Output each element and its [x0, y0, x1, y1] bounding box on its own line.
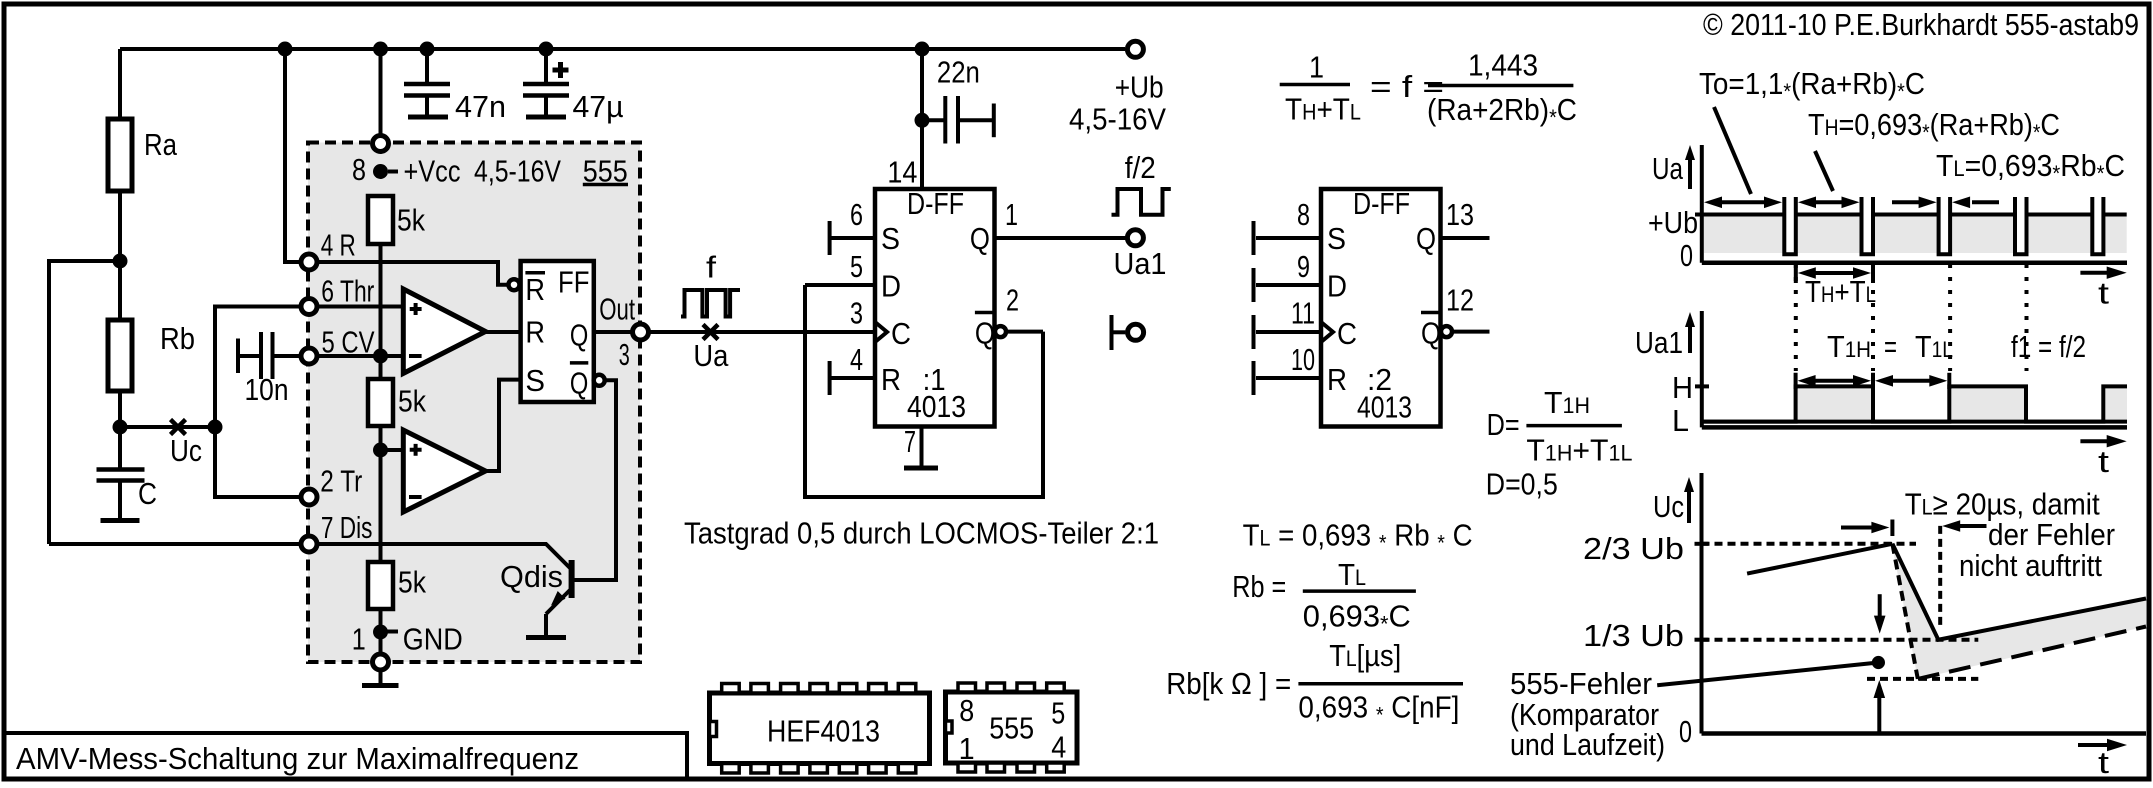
- svg-text:=: =: [1884, 329, 1897, 364]
- pin D wire :1: [805, 249, 875, 285]
- waveform Ua1 trace: [1702, 386, 2127, 421]
- svg-text:7: 7: [904, 424, 916, 459]
- IC D-FF :1 box: [875, 186, 995, 427]
- waveform Ua pulse edges: [1784, 197, 2103, 254]
- svg-text:9: 9: [1297, 249, 1310, 284]
- package HEF4013: [710, 684, 930, 774]
- svg-text:Ua: Ua: [1652, 151, 1684, 186]
- svg-text:Uc: Uc: [170, 433, 202, 468]
- ground under Qdis: [526, 635, 566, 640]
- pointer line TH: [1815, 151, 1833, 191]
- svg-text:8: 8: [352, 152, 366, 187]
- wire top supply rail: [120, 47, 1125, 51]
- pin D stub :2: [1254, 249, 1322, 302]
- pointer line To: [1714, 107, 1751, 194]
- dimension arrow To: [1704, 197, 1782, 209]
- svg-text:der Fehler: der Fehler: [1988, 517, 2115, 552]
- svg-text:4 R: 4 R: [321, 227, 356, 262]
- wire left drop to Ra: [118, 49, 122, 119]
- svg-text:10: 10: [1291, 342, 1315, 377]
- svg-text:Q: Q: [1421, 316, 1441, 351]
- FF Rbar input bubble: [509, 279, 520, 290]
- node Uc junction right: [208, 420, 223, 435]
- axis Ua1 time: [1702, 425, 2127, 430]
- svg-text:D: D: [881, 269, 901, 304]
- svg-text:0: 0: [1679, 714, 1692, 749]
- svg-text:To=1,1*(Ra+Rb)*C: To=1,1*(Ra+Rb)*C: [1699, 66, 1925, 104]
- svg-text:+Ub: +Ub: [1115, 70, 1164, 105]
- svg-text:HEF4013: HEF4013: [767, 714, 880, 749]
- svg-text:H: H: [1672, 370, 1693, 405]
- terminal Ua1: [1114, 230, 1167, 281]
- label T1H = T1L: [1827, 329, 1953, 364]
- arrow down to 1/3: [1874, 594, 1886, 633]
- svg-text:R: R: [881, 362, 901, 397]
- svg-text:555-Fehler: 555-Fehler: [1510, 666, 1652, 701]
- label 555: [583, 153, 628, 188]
- title box: [4, 733, 687, 779]
- wire Qbar2 stub: [1446, 283, 1490, 332]
- svg-text:10n: 10n: [245, 372, 289, 407]
- svg-text:Tastgrad 0,5 durch LOCMOS-Teil: Tastgrad 0,5 durch LOCMOS-Teiler 2:1: [684, 516, 1159, 551]
- arrow up to error level: [1874, 680, 1886, 733]
- wire Uc horizontal: [120, 425, 215, 429]
- wire Q1 to Ua1 terminal: [995, 236, 1126, 240]
- svg-text:C: C: [138, 476, 157, 511]
- svg-text:Q: Q: [975, 316, 995, 351]
- node rail junction 22n: [915, 42, 930, 57]
- discharge solid line: [1892, 544, 2146, 640]
- wire rail to pin 8: [379, 49, 383, 196]
- axis Ua vertical: [1700, 145, 1704, 263]
- ground under C: [101, 518, 140, 523]
- op-amp comparator 2: [403, 430, 485, 512]
- axis Uc label: [1653, 477, 1694, 524]
- node pin8 Vcc dot: [373, 164, 388, 179]
- svg-text:f: f: [706, 250, 716, 285]
- node Uc cross marker: [171, 420, 186, 435]
- svg-text:5k: 5k: [398, 564, 426, 599]
- node Ra/Rb junction: [113, 254, 128, 269]
- svg-text:R: R: [525, 272, 545, 307]
- node rail junction pin4: [278, 42, 293, 57]
- svg-text:1: 1: [1005, 197, 1018, 232]
- svg-text:Out: Out: [599, 292, 635, 327]
- svg-text:t: t: [2098, 276, 2109, 311]
- grey wedge fill: [1892, 547, 2146, 679]
- svg-text:555: 555: [989, 711, 1034, 746]
- dimension arrow T1L: [1875, 373, 1949, 389]
- svg-text:Rb[k Ω ] =: Rb[k Ω ] =: [1166, 666, 1291, 701]
- dotted projection lines: [1794, 264, 1798, 371]
- svg-text:5: 5: [850, 249, 863, 284]
- svg-text:1/3 Ub: 1/3 Ub: [1583, 618, 1684, 653]
- svg-text:TH=0,693*(Ra+Rb)*C: TH=0,693*(Ra+Rb)*C: [1808, 107, 2060, 145]
- resistor 5k bottom: [368, 562, 426, 609]
- node Ua cross marker: [703, 325, 718, 340]
- resistor 5k middle: [368, 379, 426, 426]
- formula f = 1.443/((Ra+2Rb)C): [1280, 47, 1577, 130]
- svg-text:0: 0: [1680, 238, 1693, 273]
- axis t arrow diag3: [2078, 739, 2127, 780]
- svg-text:0,693*C: 0,693*C: [1303, 598, 1411, 636]
- svg-text:Rb: Rb: [160, 321, 195, 356]
- dashed level 1/3: [1702, 638, 1979, 642]
- svg-text:1: 1: [959, 731, 975, 766]
- svg-text:4: 4: [1051, 729, 1066, 764]
- svg-text:Ua1: Ua1: [1114, 246, 1167, 281]
- pin 7 Dis terminal: [301, 536, 317, 552]
- svg-text:D-FF: D-FF: [1353, 186, 1410, 221]
- wire Ra to Rb node: [118, 191, 122, 320]
- package 555: [946, 683, 1078, 772]
- dashed vertical TL: [1938, 526, 1942, 628]
- signal f symbol: [681, 250, 740, 317]
- svg-text:nicht auftritt: nicht auftritt: [1959, 548, 2102, 583]
- node GND pin1 dot: [373, 625, 388, 640]
- svg-text:f1 = f/2: f1 = f/2: [2011, 329, 2086, 364]
- svg-text:AMV-Mess-Schaltung zur Maximal: AMV-Mess-Schaltung zur Maximalfrequenz: [16, 741, 579, 776]
- svg-text:TL[µs]: TL[µs]: [1329, 638, 1401, 673]
- wire comp2 out to FF S: [486, 380, 522, 471]
- wire rail to pin 4: [285, 49, 301, 262]
- dimension arrow T1H: [1796, 373, 1873, 389]
- pin 8 terminal: [373, 136, 389, 152]
- wire pin4 to FF Rbar: [317, 262, 509, 285]
- capacitor 47n: [404, 42, 506, 125]
- pin C stub :2: [1254, 296, 1322, 349]
- wire Qbar1 to feedback: [1006, 330, 1043, 334]
- resistor Ra: [108, 119, 178, 191]
- svg-text:14: 14: [887, 155, 917, 190]
- svg-text:R: R: [525, 314, 545, 349]
- wire FF Q out: [594, 330, 633, 334]
- node CV divider dot: [373, 349, 388, 364]
- D-FF2 Qbar bubble: [1441, 326, 1452, 337]
- pin R stub :2: [1254, 342, 1322, 395]
- wire divider chain: [379, 244, 383, 379]
- svg-text:Q: Q: [570, 318, 588, 353]
- svg-text:4: 4: [850, 342, 863, 377]
- svg-text:S: S: [1327, 221, 1346, 256]
- svg-text:+Ub: +Ub: [1648, 205, 1698, 240]
- wire junction to left bypass: [49, 261, 120, 544]
- svg-text:TH+TL: TH+TL: [1805, 274, 1876, 309]
- wire Out to clock C: [648, 330, 875, 334]
- op-amp comparator 1: [403, 289, 485, 373]
- grey fill under Ua wave: [1704, 216, 2127, 253]
- pin 2 Tr terminal: [301, 489, 317, 505]
- svg-text:3: 3: [850, 296, 863, 331]
- svg-text:f/2: f/2: [1125, 150, 1156, 185]
- dashed bottom level: [1867, 677, 1978, 681]
- axis Uc time: [1702, 731, 2147, 736]
- capacitor 47u electrolytic: [523, 42, 624, 125]
- svg-text:TH+TL: TH+TL: [1285, 92, 1361, 127]
- ground pin 7 of 4013: [904, 424, 938, 468]
- svg-text:5k: 5k: [398, 384, 426, 419]
- axis Uc vertical: [1700, 473, 1704, 734]
- svg-text:Ua: Ua: [693, 338, 729, 373]
- svg-text:Rb =: Rb =: [1232, 569, 1286, 604]
- svg-text:2: 2: [1006, 283, 1019, 318]
- svg-text:6 Thr: 6 Thr: [321, 274, 374, 309]
- svg-text:2/3 Ub: 2/3 Ub: [1583, 531, 1684, 566]
- svg-text:Ra: Ra: [144, 127, 178, 162]
- svg-text:8: 8: [1297, 197, 1310, 232]
- wire CV to comparator1 minus: [317, 354, 403, 358]
- resistor Rb: [108, 320, 195, 391]
- waveform Ua trace: [1704, 213, 2127, 217]
- svg-text:© 2011-10 P.E.Burkhardt 555-as: © 2011-10 P.E.Burkhardt 555-astab9: [1703, 7, 2139, 42]
- axis Ua time: [1702, 260, 2127, 265]
- svg-text:FF: FF: [558, 264, 589, 299]
- svg-text:13: 13: [1446, 197, 1474, 232]
- pin 3 Out terminal: [633, 324, 649, 340]
- svg-text:12: 12: [1446, 283, 1474, 318]
- IC 555 dashed box: [308, 143, 640, 663]
- svg-text:Qdis: Qdis: [500, 559, 563, 594]
- level line L full width: [1702, 420, 2127, 424]
- ground under pin 1: [362, 670, 399, 686]
- svg-text:1: 1: [1309, 50, 1324, 85]
- svg-text:L: L: [1672, 403, 1689, 438]
- node divider comp2 dot: [373, 443, 388, 458]
- resistor 5k top: [368, 196, 425, 244]
- svg-text:47µ: 47µ: [573, 89, 624, 124]
- flip-flop FF box: [521, 261, 594, 402]
- label TL >= 20us: [1905, 487, 2115, 584]
- capacitor 22n: [922, 54, 994, 143]
- svg-text:5: 5: [1051, 696, 1065, 731]
- pin 6 Thr terminal: [301, 299, 317, 315]
- svg-text:D: D: [1327, 269, 1347, 304]
- svg-text:Uc: Uc: [1653, 489, 1684, 524]
- wire 5k bottom to GND pin: [379, 609, 383, 662]
- svg-text:Q: Q: [970, 221, 990, 256]
- svg-text:3: 3: [619, 337, 630, 372]
- wire Rb to Uc node: [118, 391, 122, 469]
- axis Ua label: [1652, 145, 1695, 189]
- svg-text:1,443: 1,443: [1468, 47, 1538, 82]
- discharge dashed error line: [1892, 544, 1917, 679]
- wire comp1 out to FF R: [486, 330, 522, 334]
- svg-text:4013: 4013: [907, 389, 966, 424]
- node 22n junction: [915, 113, 930, 128]
- pin 1 GND terminal: [373, 654, 389, 670]
- formula Rb: [1232, 557, 1416, 636]
- node error dot: [1872, 656, 1885, 669]
- svg-text:Ua1: Ua1: [1635, 325, 1683, 360]
- svg-text:D-FF: D-FF: [907, 186, 964, 221]
- svg-text:GND: GND: [403, 622, 463, 657]
- axis t arrow diag2: [2080, 435, 2126, 479]
- signal f/2 symbol: [1112, 150, 1171, 215]
- svg-text:S: S: [525, 363, 545, 398]
- wire chain to 5k bottom: [379, 426, 383, 562]
- node Uc junction left: [113, 420, 128, 435]
- svg-text:7 Dis: 7 Dis: [321, 510, 373, 545]
- svg-text:22n: 22n: [937, 54, 980, 89]
- svg-text:Q: Q: [570, 365, 588, 400]
- svg-text:R: R: [1327, 362, 1347, 397]
- wire divider to comparator2 plus: [381, 448, 404, 452]
- wire Uc node down to Tr: [215, 427, 301, 497]
- pin S stub :2: [1254, 197, 1322, 255]
- wire Q2 stub: [1441, 197, 1490, 238]
- wire feedback Qbar to D: [805, 285, 1043, 497]
- svg-text:C: C: [891, 316, 911, 351]
- pin S stub :1: [830, 197, 875, 255]
- svg-text:und Laufzeit): und Laufzeit): [1510, 727, 1665, 762]
- axis Ua1 label: [1635, 312, 1695, 360]
- dimension arrow TH+TL: [1796, 263, 1876, 309]
- pin 4 R terminal: [301, 254, 317, 270]
- svg-text:11: 11: [1291, 296, 1315, 331]
- svg-text:S: S: [881, 221, 900, 256]
- svg-text:2 Tr: 2 Tr: [320, 464, 362, 499]
- dimension arrows TL: [1892, 197, 1999, 209]
- axis t arrow diag1: [2080, 267, 2126, 311]
- grey fill under Ua1 pulses: [1796, 388, 2127, 419]
- svg-text:4,5-16V: 4,5-16V: [1069, 102, 1166, 137]
- node rail junction pin8: [373, 42, 388, 57]
- FF Qbar output bubble: [594, 375, 605, 386]
- formula D ratio: [1486, 385, 1633, 501]
- wire Dis to transistor collector: [317, 544, 570, 568]
- svg-text:Q: Q: [1416, 221, 1436, 256]
- transistor Qdis: [500, 559, 572, 636]
- dashed level 2/3: [1702, 542, 1917, 546]
- capacitor 10n at CV: [238, 332, 301, 407]
- svg-text:4013: 4013: [1357, 390, 1412, 425]
- dimension arrow right TL: [1942, 520, 1986, 532]
- svg-text:47n: 47n: [455, 89, 506, 124]
- wire FF Qbar to transistor base: [574, 380, 616, 580]
- charge line Uc: [1747, 544, 1892, 574]
- svg-text:t: t: [2098, 745, 2109, 780]
- wire bypass to pin 7 Dis: [49, 542, 301, 546]
- terminal +Ub: [1069, 41, 1166, 136]
- svg-text:+Vcc: +Vcc: [404, 153, 461, 188]
- wire rail to D-FF pin14: [920, 49, 924, 189]
- pin 5 CV terminal: [301, 348, 317, 364]
- svg-text:5k: 5k: [397, 203, 425, 238]
- dimension arrow TH: [1798, 197, 1860, 209]
- svg-text:D=: D=: [1487, 407, 1520, 442]
- D-FF1 Qbar bubble: [995, 326, 1006, 337]
- terminal unused Qbar: [1112, 315, 1144, 350]
- capacitor C: [97, 470, 158, 521]
- svg-text:D=0,5: D=0,5: [1486, 467, 1558, 502]
- svg-text:6: 6: [850, 197, 863, 232]
- svg-text:8: 8: [959, 693, 974, 728]
- pin R stub :1: [830, 342, 875, 395]
- svg-text:4,5-16V: 4,5-16V: [474, 153, 561, 188]
- label 555-Fehler: [1510, 666, 1665, 762]
- svg-text:1: 1: [352, 622, 366, 657]
- dimension arrow left peak: [1841, 520, 1892, 537]
- formula Rb kOhm: [1166, 638, 1463, 727]
- wire Uc node up to Thr: [215, 307, 301, 428]
- wire Thr to comparator1 plus: [317, 305, 403, 309]
- pointer line 555-Fehler: [1657, 663, 1878, 686]
- axis Ua1 vertical: [1700, 311, 1704, 427]
- svg-text:C: C: [1337, 316, 1357, 351]
- svg-text:t: t: [2098, 444, 2109, 479]
